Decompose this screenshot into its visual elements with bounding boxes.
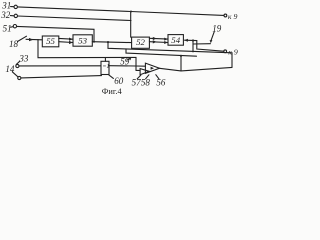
svg-text:53: 53 bbox=[78, 36, 87, 46]
svg-text:Фиг.4: Фиг.4 bbox=[102, 87, 123, 96]
svg-text:58: 58 bbox=[141, 77, 151, 87]
svg-text:33: 33 bbox=[18, 53, 29, 63]
svg-text:к 9: к 9 bbox=[228, 48, 238, 57]
svg-text:56: 56 bbox=[156, 77, 166, 87]
svg-text:=1: =1 bbox=[102, 64, 109, 70]
svg-text:к 9: к 9 bbox=[228, 12, 238, 21]
svg-text:14: 14 bbox=[5, 64, 15, 74]
svg-text:57: 57 bbox=[132, 77, 142, 87]
svg-text:32: 32 bbox=[0, 10, 11, 20]
svg-text:60: 60 bbox=[114, 76, 124, 86]
svg-text:59: 59 bbox=[120, 57, 130, 67]
svg-text:18: 18 bbox=[9, 39, 19, 49]
svg-text:52: 52 bbox=[136, 37, 145, 47]
svg-text:19: 19 bbox=[212, 23, 222, 33]
svg-text:54: 54 bbox=[171, 35, 180, 45]
svg-text:55: 55 bbox=[46, 36, 55, 46]
svg-text:51: 51 bbox=[3, 23, 12, 33]
